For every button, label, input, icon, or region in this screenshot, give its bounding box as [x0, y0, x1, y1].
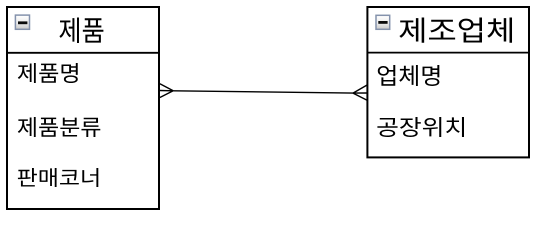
crow's foot (many) at 제조업체 — [353, 85, 367, 100]
attribute text 제품분류 — [18, 117, 100, 137]
entity title text 제조업체 — [399, 17, 512, 42]
entity title text 제품 — [59, 17, 103, 43]
collapse button of 제조업체 — [376, 15, 390, 29]
attribute text 제품명 — [18, 63, 78, 83]
entity 제조업체 box — [367, 7, 529, 157]
entity 제품 title divider — [6, 52, 160, 54]
attribute text 판매코너 — [18, 168, 98, 187]
collapse button of 제품 — [15, 15, 29, 29]
relationship wire — [173, 91, 353, 93]
entity 제품 box — [7, 7, 159, 209]
crow's foot (many) at 제품 — [160, 84, 173, 98]
entity 제조업체 title divider — [367, 52, 530, 54]
attribute text 업체명 — [378, 65, 440, 86]
attribute text 공장위치 — [377, 117, 464, 137]
